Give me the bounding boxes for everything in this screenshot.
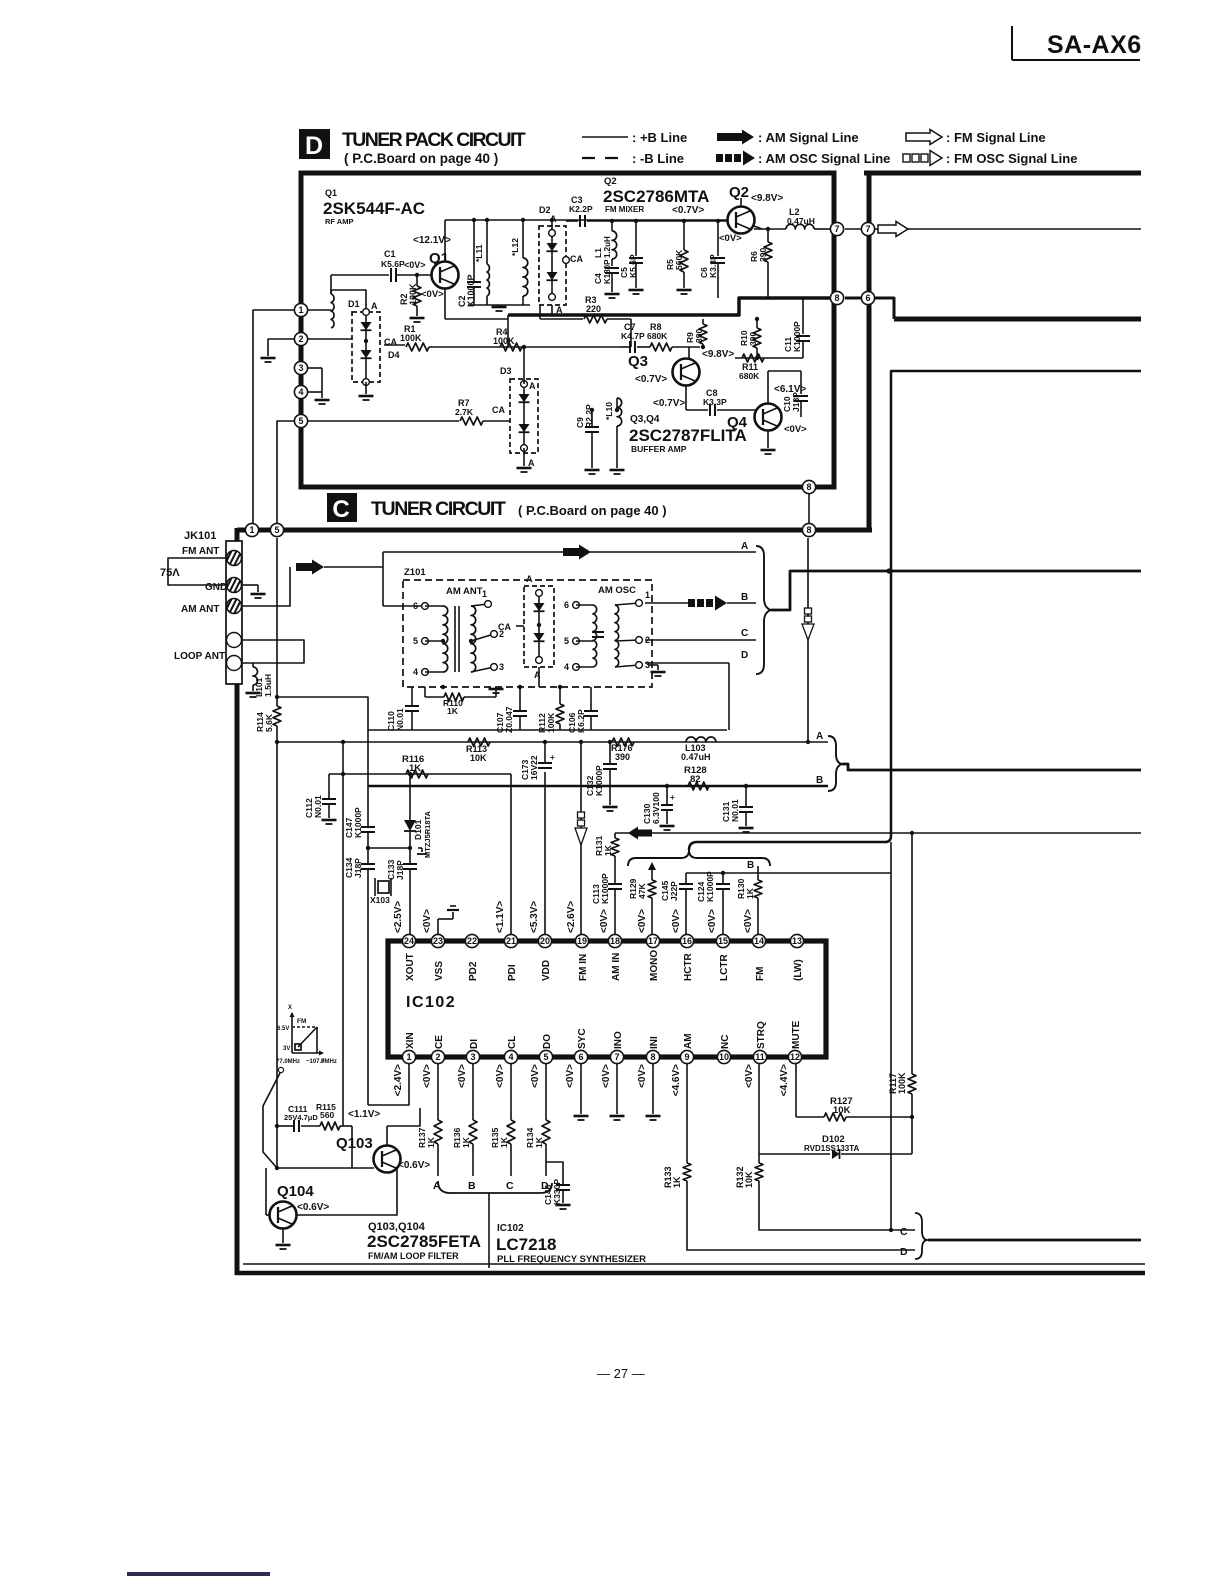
svg-text:<0.7V>: <0.7V> [653,398,685,409]
svg-text:15: 15 [718,936,728,946]
svg-text:J18P: J18P [353,858,363,878]
svg-text:<2.4V>: <2.4V> [393,1064,404,1096]
svg-text:R2.2P: R2.2P [584,404,594,428]
svg-text:C: C [506,1180,514,1192]
svg-text:<0V>: <0V> [744,1064,755,1088]
svg-text:1K: 1K [426,1136,436,1148]
svg-text:FM ANT: FM ANT [182,546,219,557]
svg-text:16V22: 16V22 [529,755,539,780]
svg-text:<0V>: <0V> [422,1064,433,1088]
svg-text:K6.2P: K6.2P [576,709,586,733]
svg-text:MTZJ5R18TA: MTZJ5R18TA [423,810,432,858]
svg-text:390: 390 [694,329,704,343]
svg-text:TUNER CIRCUIT: TUNER CIRCUIT [371,498,506,520]
svg-text:A: A [534,670,541,680]
svg-text:7: 7 [865,224,870,234]
svg-text:25V4.7μD: 25V4.7μD [284,1113,318,1122]
svg-text:390: 390 [615,752,630,762]
svg-text:X: X [288,1005,292,1011]
svg-text:K5.6P: K5.6P [628,254,638,278]
svg-text:82: 82 [690,774,701,785]
svg-text:: +B Line: : +B Line [632,130,687,145]
svg-text:( P.C.Board on page 40 ): ( P.C.Board on page 40 ) [518,503,667,518]
svg-text:NC: NC [720,1035,731,1049]
svg-text:18: 18 [610,936,620,946]
svg-text:560: 560 [320,1110,334,1120]
svg-text:<0.7V>: <0.7V> [672,205,704,216]
svg-text:2.7K: 2.7K [455,407,474,417]
svg-text:K1000P: K1000P [466,274,476,307]
svg-text:K1000P: K1000P [594,765,604,796]
svg-text:3: 3 [499,662,504,672]
svg-text:AM ANT: AM ANT [446,586,483,597]
svg-text:(LW): (LW) [793,959,804,981]
svg-text:<0V>: <0V> [719,233,742,244]
svg-text:C: C [900,1226,908,1238]
svg-text:J18P: J18P [791,392,801,412]
svg-text:PLL FREQUENCY SYNTHESIZER: PLL FREQUENCY SYNTHESIZER [497,1254,646,1265]
svg-text:4: 4 [413,667,418,677]
svg-text:A: A [528,458,535,468]
svg-text:<1.1V>: <1.1V> [348,1109,380,1120]
svg-text:<0V>: <0V> [743,909,754,933]
svg-text:16: 16 [682,936,692,946]
svg-text:<5.3V>: <5.3V> [529,901,540,933]
svg-text:C1: C1 [384,249,396,259]
svg-text:B: B [747,860,754,871]
svg-text:<0V>: <0V> [457,1064,468,1088]
svg-text:1K: 1K [461,1136,471,1148]
svg-text:1K: 1K [672,1176,682,1188]
svg-text:100K: 100K [408,283,418,305]
svg-text:Q104: Q104 [277,1183,314,1200]
svg-text:77.0MHz: 77.0MHz [276,1059,300,1065]
svg-text:1.2uH: 1.2uH [603,236,612,258]
svg-text:*L12: *L12 [510,238,520,256]
svg-text:LC7218: LC7218 [496,1235,556,1254]
svg-text:K5.6P: K5.6P [381,259,405,269]
svg-text:A: A [433,1180,441,1192]
svg-text:24: 24 [404,936,414,946]
svg-text:TUNER PACK CIRCUIT: TUNER PACK CIRCUIT [342,129,526,151]
svg-text:5: 5 [274,525,279,535]
svg-text:1K: 1K [603,844,613,856]
svg-text:8: 8 [834,293,839,303]
svg-text:<1.1V>: <1.1V> [495,901,506,933]
svg-text:8: 8 [650,1052,655,1062]
svg-text:A: A [741,541,748,552]
svg-text:680K: 680K [647,331,668,341]
svg-text:1: 1 [645,590,650,600]
svg-text:PDI: PDI [507,964,518,981]
svg-text:: FM Signal Line: : FM Signal Line [946,130,1046,145]
svg-text:23: 23 [433,936,443,946]
svg-text:12: 12 [790,1052,800,1062]
svg-text:390: 390 [748,332,758,346]
svg-text:MONO: MONO [649,950,660,981]
svg-text:1: 1 [298,305,303,315]
svg-text:LOOP ANT: LOOP ANT [174,651,225,662]
svg-text:MUTE: MUTE [791,1020,802,1049]
svg-text:— 27 —: — 27 — [597,1366,645,1381]
svg-text:1K: 1K [745,887,755,899]
svg-text:CA: CA [492,405,505,415]
svg-text:K1000P: K1000P [792,321,802,352]
svg-text:B: B [468,1180,476,1192]
svg-text:D3: D3 [500,366,512,376]
svg-text:LCTR: LCTR [719,954,730,981]
svg-text:5: 5 [564,636,569,646]
svg-text:K1000P: K1000P [705,871,715,902]
svg-text:B: B [816,775,823,786]
svg-text:IC102: IC102 [497,1223,524,1234]
svg-text:<0V>: <0V> [495,1064,506,1088]
svg-text:CL: CL [507,1036,518,1049]
svg-text:PD2: PD2 [468,961,479,981]
svg-text:FM/AM LOOP FILTER: FM/AM LOOP FILTER [368,1251,459,1261]
svg-text:FM MIXER: FM MIXER [605,205,644,214]
svg-text:F: F [321,1059,325,1065]
svg-text:Q103: Q103 [336,1135,373,1152]
svg-text:SA-AX6: SA-AX6 [1047,31,1142,59]
svg-text:4: 4 [508,1052,513,1062]
svg-text:STRQ: STRQ [756,1021,767,1049]
svg-text:<0V>: <0V> [421,289,444,300]
svg-text:<0V>: <0V> [671,909,682,933]
svg-text:<0.6V>: <0.6V> [297,1202,329,1213]
svg-text:6: 6 [564,600,569,610]
svg-text:<0.6V>: <0.6V> [398,1160,430,1171]
svg-text:22: 22 [467,936,477,946]
svg-text:<0.7V>: <0.7V> [635,374,667,385]
svg-text:<2.5V>: <2.5V> [393,901,404,933]
svg-text:XIN: XIN [405,1032,416,1049]
svg-text:AM ANT: AM ANT [181,604,220,615]
svg-text:K1000P: K1000P [353,807,363,838]
svg-text:D1: D1 [348,299,360,309]
svg-text:FM: FM [755,967,766,981]
svg-text:VDD: VDD [541,960,552,981]
svg-text:K1000P: K1000P [600,873,610,904]
svg-text:AM OSC: AM OSC [598,585,636,596]
svg-text:100K: 100K [897,1072,907,1094]
svg-text:D: D [900,1246,908,1258]
svg-text:RVD1SS133TA: RVD1SS133TA [804,1144,860,1153]
svg-text:11: 11 [755,1052,765,1062]
svg-text:2SC2787FLITA: 2SC2787FLITA [629,426,747,445]
svg-text:BUFFER AMP: BUFFER AMP [631,444,687,454]
svg-text:VSS: VSS [434,961,445,981]
svg-text:D: D [741,650,748,661]
svg-text:A: A [526,574,533,584]
svg-text:HCTR: HCTR [683,952,694,981]
svg-text:J18P: J18P [395,860,405,880]
svg-text:Q3,Q4: Q3,Q4 [630,414,660,425]
svg-text:100K: 100K [400,333,422,343]
svg-text:<0V>: <0V> [422,909,433,933]
svg-text:N0.01: N0.01 [730,799,740,822]
svg-text:<0V>: <0V> [637,909,648,933]
svg-text:560K: 560K [674,249,684,270]
svg-text:Q2: Q2 [604,176,617,187]
svg-text:*L11: *L11 [474,244,484,262]
svg-text:220: 220 [586,304,601,314]
svg-text:5.6K: 5.6K [264,713,274,732]
svg-text:IC102: IC102 [406,994,456,1011]
svg-text:20: 20 [540,936,550,946]
svg-text:10K: 10K [744,1171,754,1188]
svg-text:<0V>: <0V> [565,1064,576,1088]
svg-text:K2.2P: K2.2P [569,204,593,214]
svg-text:DO: DO [542,1034,553,1049]
svg-text:390: 390 [758,248,768,262]
svg-text:: AM OSC Signal Line: : AM OSC Signal Line [758,151,890,166]
svg-text:2: 2 [435,1052,440,1062]
svg-text:<0V>: <0V> [599,909,610,933]
svg-text:D4: D4 [388,350,400,360]
svg-text:: FM OSC Signal Line: : FM OSC Signal Line [946,151,1077,166]
svg-text:5: 5 [543,1052,548,1062]
svg-text:<0V>: <0V> [637,1064,648,1088]
svg-text:RF AMP: RF AMP [325,217,353,226]
svg-text:2SK544F-AC: 2SK544F-AC [323,199,425,218]
svg-text:: AM Signal Line: : AM Signal Line [758,130,859,145]
svg-text:J22P: J22P [669,881,679,901]
svg-text:5: 5 [413,636,418,646]
svg-text:+: + [550,753,555,762]
svg-text:6.5V: 6.5V [277,1026,289,1032]
svg-text:N0.01: N0.01 [313,795,323,818]
svg-text:<0V>: <0V> [530,1064,541,1088]
svg-text:K3.3P: K3.3P [703,397,727,407]
svg-text:XOUT: XOUT [405,953,416,981]
svg-text:3: 3 [298,363,303,373]
svg-text:13: 13 [792,936,802,946]
svg-text:<0V>: <0V> [601,1064,612,1088]
svg-text:6: 6 [578,1052,583,1062]
svg-text:2: 2 [298,334,303,344]
svg-text:19: 19 [577,936,587,946]
svg-text:AM: AM [683,1033,694,1049]
svg-text:10K: 10K [470,753,487,763]
svg-text:10K: 10K [833,1105,851,1116]
svg-text:100K: 100K [546,712,556,733]
svg-text:1.5uH: 1.5uH [263,674,273,697]
svg-text:Z101: Z101 [404,567,426,578]
svg-text:SYC: SYC [577,1028,588,1049]
svg-text:6.3V100: 6.3V100 [651,792,661,824]
svg-text:K180P: K180P [603,259,612,284]
svg-text:8: 8 [806,482,811,492]
svg-text:<0V>: <0V> [404,260,426,270]
svg-text:2SC2785FETA: 2SC2785FETA [367,1232,481,1251]
svg-text:JK101: JK101 [184,530,216,542]
svg-text:C: C [741,628,748,639]
svg-text:8: 8 [806,525,811,535]
svg-text:( P.C.Board on page 40 ): ( P.C.Board on page 40 ) [344,151,498,166]
svg-text:21: 21 [506,936,516,946]
svg-text:10: 10 [719,1052,729,1062]
svg-text:A: A [371,301,378,311]
svg-text:1K: 1K [447,706,459,716]
svg-text:FM IN: FM IN [578,954,589,981]
svg-text:CE: CE [434,1035,445,1049]
svg-text:Z0.047: Z0.047 [504,706,514,733]
svg-text:1K: 1K [499,1136,509,1148]
svg-text:A: A [529,381,536,391]
svg-text:9: 9 [684,1052,689,1062]
svg-text:<9.8V>: <9.8V> [702,349,734,360]
svg-text:A: A [816,731,823,742]
svg-text:7: 7 [834,224,839,234]
svg-text:2SC2786MTA: 2SC2786MTA [603,187,709,206]
svg-text:<2.6V>: <2.6V> [566,901,577,933]
svg-text:D101: D101 [413,819,423,840]
svg-text:C4: C4 [593,273,603,284]
svg-text:CA: CA [498,622,511,632]
svg-text:GND: GND [205,582,227,593]
svg-text:<9.8V>: <9.8V> [751,193,783,204]
svg-text:1: 1 [406,1052,411,1062]
svg-text:INI: INI [649,1036,660,1049]
svg-text:X103: X103 [370,895,390,905]
svg-text:DI: DI [469,1039,480,1049]
svg-text:1K: 1K [534,1136,544,1148]
svg-text:Q1: Q1 [325,188,337,198]
svg-text:<0V>: <0V> [707,909,718,933]
svg-text:100K: 100K [493,336,515,346]
svg-text:4: 4 [564,662,569,672]
svg-text:AM IN: AM IN [611,953,622,981]
svg-text:Q3: Q3 [628,353,648,370]
svg-text:6: 6 [865,293,870,303]
svg-text:C: C [332,496,349,523]
svg-text:17: 17 [648,936,658,946]
svg-text:0.47uH: 0.47uH [787,216,815,226]
svg-text:CA: CA [570,254,583,264]
svg-text:<0V>: <0V> [784,424,807,435]
svg-text:47K: 47K [637,883,647,899]
svg-text:Q2: Q2 [729,184,749,201]
svg-text:14: 14 [754,936,764,946]
svg-text:6: 6 [413,601,418,611]
svg-text:5: 5 [298,416,303,426]
svg-text:N0.01: N0.01 [395,708,405,731]
svg-text:*L10: *L10 [604,402,614,420]
svg-text:3V: 3V [283,1046,290,1052]
svg-text:K3.3P: K3.3P [708,254,718,278]
svg-text:0.47uH: 0.47uH [681,752,711,762]
svg-text:7: 7 [614,1052,619,1062]
svg-text:FM: FM [297,1018,306,1025]
svg-text:3: 3 [470,1052,475,1062]
svg-text:K4.7P: K4.7P [621,331,645,341]
svg-text:L1: L1 [593,248,603,258]
svg-text:D2: D2 [539,205,551,215]
svg-text:<4.4V>: <4.4V> [779,1064,790,1096]
svg-text:INO: INO [613,1031,624,1049]
svg-text:1: 1 [482,589,487,599]
svg-text:4: 4 [298,387,303,397]
svg-text:K330P: K330P [552,1179,562,1205]
svg-text:D: D [305,132,323,160]
svg-text:1: 1 [249,525,254,535]
svg-text:75Λ: 75Λ [160,567,180,579]
svg-text:680K: 680K [739,371,760,381]
svg-text:: -B Line: : -B Line [632,151,684,166]
svg-text:+: + [670,793,675,802]
svg-text:<4.6V>: <4.6V> [671,1064,682,1096]
svg-text:B: B [741,592,748,603]
